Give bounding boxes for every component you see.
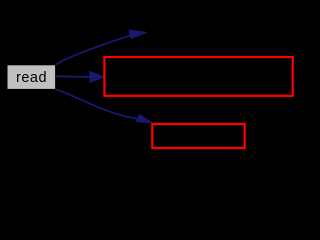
edge read -> middle red node (wire) bbox=[56, 75, 91, 78]
node read (grey box) bbox=[7, 65, 56, 90]
arrowhead middle edge bbox=[90, 71, 105, 82]
edge read -> top node (wire) bbox=[56, 35, 132, 65]
arrowhead bottom edge bbox=[136, 114, 152, 122]
edge read -> bottom red node (wire) bbox=[56, 89, 137, 118]
bottom red node box bbox=[152, 124, 244, 148]
svg-text:read: read bbox=[16, 70, 47, 86]
middle red node box bbox=[104, 57, 292, 96]
arrowhead top edge bbox=[129, 30, 147, 38]
